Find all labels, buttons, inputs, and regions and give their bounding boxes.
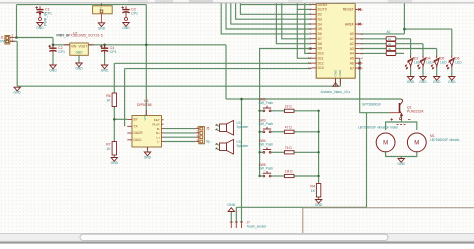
svg-text:D9: D9 <box>318 47 322 51</box>
wire buttons collect rail <box>318 111 320 184</box>
svg-text:1K: 1K <box>106 98 111 102</box>
ground rail left gnd <box>14 87 22 95</box>
wire A2 row b <box>396 43 423 45</box>
node button rail node 176.0 <box>258 175 260 177</box>
C1 lower marks + PWR_IN vertical label <box>39 12 48 26</box>
svg-text:GND: GND <box>75 67 83 71</box>
svg-text:A0: A0 <box>350 32 354 36</box>
LED D4 <box>417 56 433 70</box>
ground LED D5 gnd <box>433 77 441 85</box>
node collect rail node 110.8 <box>317 110 319 112</box>
connector J7 Touch_sensor <box>230 221 267 229</box>
svg-text:GND: GND <box>36 26 44 30</box>
node A0 top node <box>403 28 406 31</box>
ground C1 gnd <box>36 23 44 31</box>
capacitor C2 <box>48 45 65 54</box>
transistor Q1 <box>390 99 424 120</box>
svg-text:GND: GND <box>98 26 106 30</box>
wire U3 gnd stub <box>147 147 149 152</box>
battery holder BT1 <box>93 3 113 23</box>
svg-text:VIN: VIN <box>71 45 77 49</box>
svg-text:KEY: KEY <box>154 118 160 122</box>
svg-text:GND: GND <box>398 162 406 166</box>
wire touch sensor 3V3 drop <box>241 99 243 222</box>
ground battery gnd <box>98 23 106 31</box>
wire button row 3 right seg <box>294 151 319 153</box>
svg-text:D2: D2 <box>318 13 322 17</box>
svg-text:LB7268001F vibratio: LB7268001F vibratio <box>430 138 460 142</box>
wire A0 row <box>360 33 405 35</box>
node C4 node <box>103 44 106 47</box>
wire R4 gnd stub <box>318 197 320 199</box>
svg-text:LED: LED <box>455 60 462 64</box>
motor M1 <box>376 118 459 152</box>
node button rail node 110.8 <box>258 110 260 112</box>
resistor R8 <box>285 104 295 112</box>
svg-text:D1/TX: D1/TX <box>318 8 328 12</box>
wire button row 4 mid seg <box>271 175 285 177</box>
svg-text:GP7268001F: GP7268001F <box>362 103 381 107</box>
svg-text:GND: GND <box>433 80 441 84</box>
svg-text:LED: LED <box>440 60 447 64</box>
wire D4 feeder elbow <box>231 3 312 24</box>
svg-text:DFR0768: DFR0768 <box>137 103 152 107</box>
wire R6 bottom <box>113 107 115 142</box>
svg-text:GND: GND <box>338 69 342 77</box>
wire A1 row a <box>360 38 387 40</box>
wire D11 feeder elbow <box>297 3 311 58</box>
svg-text:GND: GND <box>101 69 109 73</box>
svg-text:A2: A2 <box>350 42 354 46</box>
svg-text:D7: D7 <box>318 37 322 41</box>
wire A3 row b <box>396 48 437 50</box>
ground MCU gnd arrow <box>333 83 339 86</box>
wire A4 row a <box>360 52 387 54</box>
capacitor C3 <box>121 6 138 15</box>
svg-text:SW_Push: SW_Push <box>259 122 274 126</box>
resistor R7 <box>106 142 116 156</box>
wire A1 row b <box>396 38 411 40</box>
svg-text:VCC: VCC <box>143 113 147 120</box>
resistor R4 <box>310 184 320 198</box>
audio module U3 DFR0768 <box>127 99 163 150</box>
wire D5 feeder elbow <box>226 3 312 29</box>
scrollbar thumb <box>80 234 388 240</box>
speaker LS2 <box>216 140 250 155</box>
svg-text:Touch_sensor: Touch_sensor <box>247 224 268 228</box>
regulator U7 <box>58 31 103 55</box>
node collect rail node 131.8 <box>317 131 319 133</box>
svg-text:M: M <box>383 141 388 147</box>
svg-text:1k: 1k <box>388 37 392 41</box>
svg-text:GND: GND <box>448 80 456 84</box>
svg-text:CP1: CP1 <box>58 50 65 54</box>
svg-text:GND: GND <box>419 80 427 84</box>
wire touch to base node riser <box>366 113 368 208</box>
wire A0 top feeder <box>403 3 405 34</box>
svg-text:D13: D13 <box>318 66 324 70</box>
node collect rail node 152.3 <box>317 151 319 153</box>
wire motor gnd join <box>386 152 417 157</box>
svg-text:PWR_IN: PWR_IN <box>44 12 48 26</box>
ground C4 gnd <box>101 65 109 73</box>
node touch 3V3 node <box>240 98 243 101</box>
svg-text:D5: D5 <box>318 27 322 31</box>
svg-text:D11: D11 <box>318 57 324 61</box>
ground R7 gnd <box>111 158 119 166</box>
ground LED D3 gnd <box>407 77 415 85</box>
svg-text:Speaker: Speaker <box>237 144 250 148</box>
svg-text:A3: A3 <box>350 47 354 51</box>
wire LED4 drop <box>451 29 453 55</box>
wire D12 line <box>114 62 311 64</box>
svg-text:47 Ω: 47 Ω <box>285 125 292 129</box>
node D9 pin node <box>309 47 312 50</box>
svg-text:AREF: AREF <box>345 22 354 26</box>
wire R6 node to U3 BY <box>114 118 127 120</box>
node button rail node 152.3 <box>258 151 260 153</box>
wire Q1 emitter to motor <box>401 116 403 122</box>
speaker LS1 <box>216 121 250 136</box>
wire D7 feeder elbow <box>282 3 312 39</box>
wire U3 speaker wire 1 <box>164 128 196 130</box>
svg-text:GND: GND <box>407 80 415 84</box>
wire A4 row b <box>396 52 404 54</box>
svg-text:GND: GND <box>333 69 337 77</box>
LED D3 <box>405 56 421 70</box>
svg-text:2k: 2k <box>388 42 392 46</box>
svg-text:PWR_IN: PWR_IN <box>56 34 70 38</box>
svg-text:J5: J5 <box>206 126 210 130</box>
svg-text:SW_Push: SW_Push <box>259 166 274 170</box>
ground LED D4 gnd <box>419 77 427 85</box>
wire motor feed split <box>386 122 417 130</box>
wire D3 feeder elbow <box>236 3 312 19</box>
wire touch pin2 row <box>236 206 366 208</box>
wire 3V3 down to U3 VCC <box>145 45 147 116</box>
svg-text:D10: D10 <box>318 52 324 56</box>
svg-text:A5: A5 <box>350 57 354 61</box>
wire button row 1 mid seg <box>271 110 285 112</box>
node J1 pin2 node <box>15 36 18 39</box>
node R6 R7 BY node <box>113 118 116 121</box>
resistor R6 <box>106 93 116 107</box>
push button SW2 <box>259 98 274 112</box>
svg-text:Arduino_Nano_v3.x: Arduino_Nano_v3.x <box>321 90 351 94</box>
toolbar strip top <box>0 0 474 2</box>
LED D6 <box>446 56 462 70</box>
wire J1 pin1 drop <box>10 40 17 42</box>
svg-text:GND: GND <box>49 69 57 73</box>
svg-text:1M Ω: 1M Ω <box>285 170 293 174</box>
wire C4 hang <box>104 45 106 48</box>
svg-text:PW: PW <box>0 39 6 43</box>
wire U3 speaker wire 3 <box>164 136 196 138</box>
wire D13 line <box>125 68 312 70</box>
wire button row 1 right seg <box>294 110 319 112</box>
wire C4 gnd stub <box>104 54 106 65</box>
push button SW4 <box>259 139 274 153</box>
push button SW5 <box>259 163 274 177</box>
ferrite bead FB1 <box>386 37 396 41</box>
svg-text:D8: D8 <box>318 42 322 46</box>
svg-text:SW_Push: SW_Push <box>259 143 274 147</box>
wire GND rail <box>17 85 340 87</box>
svg-text:LB7268001F vibration motor: LB7268001F vibration motor <box>358 125 399 129</box>
resistor R11 <box>285 170 295 178</box>
ground U7 gnd <box>75 63 83 71</box>
C3 lower circle <box>125 15 128 20</box>
svg-text:GND: GND <box>111 161 119 165</box>
wire D9 row + buttons rail <box>260 49 312 177</box>
ground J7 gnd (arrow up) <box>227 203 235 212</box>
svg-text:75 Ω: 75 Ω <box>285 146 292 150</box>
svg-text:SW_Push: SW_Push <box>259 101 274 105</box>
sheet border corner <box>303 208 474 233</box>
wire button row 2 left seg <box>260 131 264 133</box>
wire LED2 drop <box>422 44 424 56</box>
svg-text:1: 1 <box>12 38 14 42</box>
svg-text:M: M <box>414 141 419 147</box>
wire LED1 drop <box>410 39 412 56</box>
wire A2 row a <box>360 43 387 45</box>
svg-text:A0: A0 <box>387 30 391 34</box>
wire LED3 drop <box>436 49 438 56</box>
wire button row 4 right seg <box>294 175 319 177</box>
wire 3V3 input seg <box>53 44 70 46</box>
svg-text:A4: A4 <box>350 52 354 56</box>
connector J1 <box>0 34 14 44</box>
node 3V3 col node <box>145 44 148 47</box>
wire A5 to Q1 base <box>360 58 390 112</box>
wire R7 gnd stub <box>113 155 115 157</box>
svg-text:Sp..: Sp.. <box>206 140 212 144</box>
ferrite bead FB3 <box>386 46 396 50</box>
capacitor C1 <box>35 6 52 15</box>
resistor R10 <box>285 146 295 154</box>
svg-text:CP1: CP1 <box>110 50 117 54</box>
wire LED3 gnd stub <box>436 68 438 77</box>
microcontroller U2 Arduino Nano <box>308 0 364 84</box>
wire J1 pin2 to C2 node <box>15 37 53 39</box>
capacitor C4 <box>100 45 117 54</box>
wire D0 row <box>240 4 311 6</box>
svg-text:D3: D3 <box>318 17 322 21</box>
svg-text:Speaker: Speaker <box>237 125 250 129</box>
ground LED D6 gnd <box>448 77 456 85</box>
wire MCU GND pin drop 2 <box>339 78 341 86</box>
ferrite bead FB2 <box>386 42 396 46</box>
wire button row 3 left seg <box>260 151 264 153</box>
wire D10 feeder elbow <box>305 3 312 53</box>
ground C3 gnd <box>122 23 130 31</box>
wire C2 gnd stub <box>52 54 54 65</box>
svg-text:3k: 3k <box>388 47 392 51</box>
wire button row 3 mid seg <box>271 151 285 153</box>
wire 3V3 down from top rail <box>145 5 147 45</box>
svg-text:A7: A7 <box>350 66 354 70</box>
ground motor gnd <box>398 159 406 167</box>
wire A3 row a <box>360 48 387 50</box>
svg-text:PUN2222A: PUN2222A <box>407 109 424 113</box>
horizontal scrollbar <box>0 233 474 241</box>
svg-text:LED: LED <box>426 60 433 64</box>
svg-text:GND: GND <box>227 203 235 207</box>
wire VCC top rail <box>17 4 147 6</box>
wire button row 1 left seg <box>260 110 264 112</box>
node collect rail node 176.0 <box>317 175 319 177</box>
svg-text:D12: D12 <box>318 61 324 65</box>
svg-text:22 Ω: 22 Ω <box>285 104 292 108</box>
ground C2 gnd <box>49 65 57 73</box>
wire touch pin2 riser <box>235 207 237 222</box>
LED D5 <box>431 56 447 70</box>
wire R6 top line vert <box>113 63 115 93</box>
svg-text:DACL: DACL <box>134 138 143 142</box>
svg-text:GND: GND <box>144 156 152 160</box>
wire button row 4 left seg <box>260 175 264 177</box>
wire U7 gnd stub <box>78 55 80 63</box>
node button rail node 131.8 <box>258 131 260 133</box>
connector J5 speakers <box>195 125 212 144</box>
svg-text:D4: D4 <box>318 22 322 26</box>
wire D8 feeder elbow <box>276 3 311 44</box>
wire button row 2 right seg <box>294 131 319 133</box>
wire U3 speaker wire 2 <box>164 132 196 134</box>
wire U3 TX vert <box>124 69 126 127</box>
wire GND left drop <box>16 41 18 86</box>
wire 3V3 corner to touch col <box>226 98 242 100</box>
wire MCU GND pin drop 1 <box>335 78 337 86</box>
svg-text:A1: A1 <box>350 37 354 41</box>
wire U3 speaker wire 4 <box>164 141 196 143</box>
ground R4 gnd <box>315 200 323 208</box>
ferrite bead FB4 <box>386 51 396 55</box>
wire button row 2 mid seg <box>271 131 285 133</box>
wire motor gnd stub <box>400 157 402 159</box>
resistor R9 <box>285 125 295 133</box>
svg-text:1K: 1K <box>106 147 111 151</box>
ground U3 gnd <box>144 152 152 160</box>
svg-text:DACR: DACR <box>134 131 144 135</box>
wire D6 feeder elbow <box>221 3 311 34</box>
node C2 node <box>52 44 55 47</box>
wire LED4 top line <box>404 28 451 30</box>
svg-text:1K: 1K <box>311 189 316 193</box>
svg-text:GND: GND <box>315 203 323 207</box>
wire LED2 gnd stub <box>422 68 424 77</box>
svg-text:RESET: RESET <box>343 8 354 12</box>
svg-text:PLAY: PLAY <box>152 122 160 126</box>
wire touch pin1 gnd stub <box>230 212 232 223</box>
svg-text:GND: GND <box>122 26 130 30</box>
svg-text:VOUT: VOUT <box>78 45 87 49</box>
svg-text:GND: GND <box>75 50 83 54</box>
wire LED4 gnd stub <box>451 68 453 77</box>
window bottom edge <box>0 240 474 243</box>
toolbar bottom edge <box>0 2 474 3</box>
svg-text:D6: D6 <box>318 32 322 36</box>
wire 3V3 U7 out to C4 to MCU col <box>88 44 226 46</box>
svg-text:L-: L- <box>157 140 160 144</box>
push button SW3 <box>259 119 274 133</box>
svg-text:A6: A6 <box>350 62 354 66</box>
wire D2 feeder elbow <box>240 3 311 14</box>
svg-text:CP1: CP1 <box>131 11 138 15</box>
wire 3V3 drop right col <box>225 45 227 99</box>
wire LED1 gnd stub <box>410 68 412 77</box>
wire C2 drop <box>52 38 54 45</box>
wire D1 row <box>297 8 311 10</box>
svg-text:GND: GND <box>14 91 22 95</box>
wire J1 pin2 riser <box>16 5 18 38</box>
wire motor power line <box>242 98 401 100</box>
